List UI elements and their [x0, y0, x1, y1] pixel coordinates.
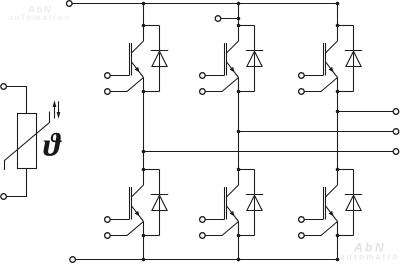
terminal phase W: [393, 109, 399, 115]
aux emitter terminal Q1: [105, 89, 111, 95]
node DC- col1: [142, 258, 146, 262]
transistor Q1: [130, 41, 144, 78]
node diode branch top Q5: [237, 168, 241, 172]
node diode branch bottom Q4: [142, 234, 146, 238]
wire diode branch top D1: [144, 25, 160, 27]
diode D6: [345, 195, 362, 211]
wire DC- rail: [75, 259, 337, 261]
diode D4: [151, 195, 168, 211]
wire bus col2 top: [238, 4, 240, 26]
wire emitter bus Q1: [143, 78, 145, 92]
aux emitter terminal Q3: [299, 89, 305, 95]
node DC+ col2: [237, 2, 241, 6]
wire aux emitter Q4: [110, 222, 143, 236]
thermistor arrows: [53, 100, 61, 118]
wire diode cathode lead D6: [353, 170, 355, 236]
wire collector bus Q6: [337, 170, 339, 186]
node diode branch top Q6: [336, 168, 340, 172]
wire gate Q4: [110, 219, 129, 221]
node phase V: [237, 130, 241, 134]
wire collector bus Q5: [238, 170, 240, 186]
node phase U: [142, 150, 146, 154]
thermistor RT1: [5, 112, 50, 171]
wire phase U output: [144, 151, 394, 153]
node DC- col3: [336, 258, 340, 262]
wire gate Q5: [205, 219, 224, 221]
gate terminal Q6: [299, 217, 305, 223]
wire collector bus Q2: [238, 26, 240, 42]
node DC+ col1: [142, 2, 146, 6]
aux emitter terminal Q4: [105, 233, 111, 239]
aux emitter terminal Q5: [200, 233, 206, 239]
wire bus col2 bottom: [238, 236, 240, 260]
label theta: [43, 133, 61, 156]
terminal thermistor top: [1, 84, 7, 90]
wire diode branch top D6: [338, 169, 354, 171]
gate terminal Q5: [200, 217, 206, 223]
wire emitter bus Q4: [143, 222, 145, 236]
wire thermistor top lead: [6, 87, 26, 114]
gate terminal Q2: [200, 73, 206, 79]
wire diode branch bottom D5: [239, 235, 255, 237]
wire DC+ rail: [72, 3, 337, 5]
node DC- col2: [237, 258, 241, 262]
wire collector bus Q4: [143, 170, 145, 186]
wire aux emitter Q6: [304, 222, 337, 236]
transistor Q3: [324, 41, 338, 78]
wire diode branch top D2: [239, 25, 255, 27]
wire thermistor bottom lead: [6, 169, 26, 197]
diode D5: [246, 195, 263, 211]
svg-text:automation: automation: [8, 12, 71, 22]
wire gate Q2: [205, 75, 224, 77]
node diode branch bottom Q5: [237, 234, 241, 238]
node diode branch bottom Q3: [336, 90, 340, 94]
wire aux emitter Q2: [205, 78, 238, 92]
terminal DC+ sense: [215, 16, 221, 22]
terminal DC-: [70, 257, 76, 263]
node diode branch bottom Q2: [237, 90, 241, 94]
wire phase V output: [239, 131, 394, 133]
terminal thermistor bottom: [1, 194, 7, 200]
wire bus col3 top: [337, 4, 339, 26]
wire diode branch bottom D6: [338, 235, 354, 237]
gate terminal Q4: [105, 217, 111, 223]
wire aux emitter Q3: [304, 78, 337, 92]
wire emitter bus Q2: [238, 78, 240, 92]
wire collector bus Q1: [143, 26, 145, 42]
wire DC+ sense: [221, 18, 239, 20]
terminal phase V: [393, 129, 399, 135]
terminal DC+: [67, 1, 73, 7]
diode D3: [345, 51, 362, 67]
wire collector bus Q3: [337, 26, 339, 42]
wire emitter bus Q5: [238, 222, 240, 236]
wire bus col3 bottom: [337, 236, 339, 260]
aux emitter terminal Q2: [200, 89, 206, 95]
wire diode cathode lead D1: [159, 26, 161, 92]
gate terminal Q1: [105, 73, 111, 79]
diode D2: [246, 51, 263, 67]
wire gate Q1: [110, 75, 129, 77]
transistor Q4: [130, 185, 144, 222]
gate terminal Q3: [299, 73, 305, 79]
diode D1: [151, 51, 168, 67]
node diode branch bottom Q1: [142, 90, 146, 94]
wire diode branch top D3: [338, 25, 354, 27]
wire aux emitter Q5: [205, 222, 238, 236]
transistor Q5: [225, 185, 239, 222]
wire bus col3 middle: [337, 92, 339, 170]
wire bus col1 middle: [143, 92, 145, 170]
wire phase W output: [338, 111, 394, 113]
wire diode cathode lead D5: [254, 170, 256, 236]
wire diode cathode lead D2: [254, 26, 256, 92]
wire emitter bus Q3: [337, 78, 339, 92]
node diode branch bottom Q6: [336, 234, 340, 238]
aux emitter terminal Q6: [299, 233, 305, 239]
wire diode cathode lead D3: [353, 26, 355, 92]
wire diode branch bottom D1: [144, 91, 160, 93]
wire diode branch bottom D3: [338, 91, 354, 93]
terminal phase U: [393, 149, 399, 155]
wire diode branch bottom D2: [239, 91, 255, 93]
wire bus col2 middle: [238, 92, 240, 170]
transistor Q2: [225, 41, 239, 78]
node diode branch top Q3: [336, 24, 340, 28]
svg-text:automation: automation: [340, 253, 400, 262]
node diode branch top Q4: [142, 168, 146, 172]
wire diode branch bottom D4: [144, 235, 160, 237]
node DC+ sense: [237, 17, 241, 21]
node DC+ col3: [336, 2, 340, 6]
wire bus col1 bottom: [143, 236, 145, 260]
wire diode branch top D5: [239, 169, 255, 171]
node diode branch top Q2: [237, 24, 241, 28]
wire aux emitter Q1: [110, 78, 143, 92]
wire gate Q3: [304, 75, 323, 77]
wire diode branch top D4: [144, 169, 160, 171]
node phase W: [336, 110, 340, 114]
node diode branch top Q1: [142, 24, 146, 28]
wire diode cathode lead D4: [159, 170, 161, 236]
transistor Q6: [324, 185, 338, 222]
wire bus col1 top: [143, 4, 145, 26]
wire emitter bus Q6: [337, 222, 339, 236]
wire gate Q6: [304, 219, 323, 221]
